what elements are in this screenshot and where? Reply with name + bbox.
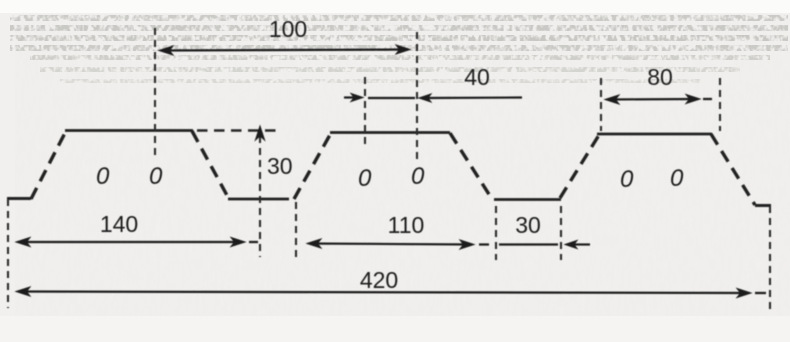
svg-text:30: 30 bbox=[515, 212, 541, 238]
svg-text:0: 0 bbox=[670, 165, 684, 192]
svg-text:0: 0 bbox=[96, 163, 110, 190]
svg-text:140: 140 bbox=[100, 211, 138, 237]
svg-text:0: 0 bbox=[358, 165, 372, 192]
svg-text:420: 420 bbox=[360, 267, 398, 293]
svg-text:0: 0 bbox=[411, 163, 425, 190]
svg-text:100: 100 bbox=[269, 16, 307, 42]
svg-text:30: 30 bbox=[267, 153, 293, 179]
svg-text:40: 40 bbox=[464, 64, 490, 90]
svg-text:0: 0 bbox=[620, 166, 634, 193]
svg-text:110: 110 bbox=[388, 212, 425, 238]
svg-text:80: 80 bbox=[647, 64, 673, 90]
svg-text:0: 0 bbox=[149, 163, 163, 190]
